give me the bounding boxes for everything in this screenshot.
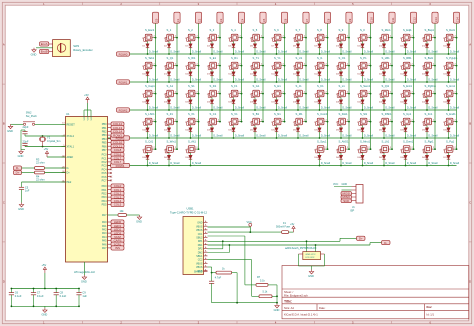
MCU pin PB7 bbox=[108, 149, 112, 151]
svg-text:S_End1: S_End1 bbox=[446, 112, 456, 116]
wire switch SW48 to column bbox=[454, 93, 456, 95]
wire column COL13 bbox=[434, 23, 436, 149]
wire J1 VCC bbox=[334, 186, 352, 188]
wire switch SW53 to column bbox=[239, 121, 241, 123]
junction at C10 bbox=[211, 272, 213, 274]
wire C1 to XTAL2 bbox=[24, 134, 26, 136]
svg-text:Title:: Title: bbox=[284, 300, 292, 304]
junction column 12 row 1 bbox=[413, 65, 415, 67]
svg-text:PA6: PA6 bbox=[102, 243, 107, 246]
svg-text:D_Small: D_Small bbox=[385, 162, 395, 165]
svg-text:D_Small: D_Small bbox=[213, 78, 223, 81]
junction diode D39 row 2 bbox=[319, 109, 321, 111]
svg-text:S_Bsl1: S_Bsl1 bbox=[425, 56, 434, 60]
global label ROW0 bbox=[117, 52, 130, 56]
junction column 1 row 0 bbox=[176, 37, 178, 39]
junction diode D25 row 1 bbox=[340, 81, 342, 83]
MCU pin PC2 bbox=[108, 161, 112, 163]
global label COL0 bbox=[152, 12, 158, 23]
wire switch SW63 to column bbox=[454, 121, 456, 123]
global label ROW3 bbox=[111, 136, 130, 140]
capacitor C7 0.1uF bbox=[31, 293, 36, 295]
junction D- at U2 bbox=[315, 244, 317, 246]
svg-text:D_Small: D_Small bbox=[321, 162, 331, 165]
svg-text:SBU2: SBU2 bbox=[196, 236, 203, 239]
global label COL11 bbox=[111, 144, 124, 148]
wire switch SW23 to column bbox=[239, 65, 241, 67]
svg-text:PD4: PD4 bbox=[102, 200, 107, 203]
diode D25 (D_Small) bbox=[336, 66, 338, 70]
svg-text:D_Small: D_Small bbox=[170, 106, 180, 109]
svg-text:PB2: PB2 bbox=[102, 131, 107, 134]
resistor R6 1k bbox=[216, 271, 232, 274]
junction diode D9 row 0 bbox=[319, 53, 321, 55]
svg-text:S_Alt1: S_Alt1 bbox=[188, 139, 196, 143]
junction column 9 row 0 bbox=[348, 37, 350, 39]
wire switch SW8 to column bbox=[239, 37, 241, 39]
wire +5V to MCU VCC pins bbox=[87, 103, 89, 110]
svg-text:D_Small: D_Small bbox=[385, 50, 395, 53]
svg-text:D_Small: D_Small bbox=[213, 134, 223, 137]
svg-text:S_Eql1: S_Eql1 bbox=[403, 28, 412, 32]
wire fuse to +5V bbox=[289, 231, 294, 233]
svg-text:C13: C13 bbox=[434, 17, 438, 22]
junction column 11 row 3 bbox=[391, 121, 393, 123]
MCU pin PD3 bbox=[108, 196, 112, 198]
global label COL3 bbox=[111, 195, 124, 199]
MCU pin PA6 bbox=[108, 243, 112, 245]
resistor R3 22ohm bbox=[35, 167, 45, 170]
svg-text:C6: C6 bbox=[15, 291, 19, 295]
junction column 10 row 2 bbox=[370, 93, 372, 95]
svg-text:D_Small: D_Small bbox=[321, 134, 331, 137]
ground at crystal caps bbox=[19, 150, 23, 154]
wire switch SW31 to column bbox=[411, 65, 413, 67]
MCU pin PB6 bbox=[108, 145, 112, 147]
wire switch SW22 to column bbox=[218, 65, 220, 67]
diode D11 (D_Small) bbox=[358, 38, 360, 42]
junction diode D62 row 4 bbox=[168, 165, 170, 167]
diode D13 (D_Small) bbox=[401, 38, 403, 42]
svg-text:D_Small: D_Small bbox=[299, 78, 309, 81]
svg-text:S_Q1: S_Q1 bbox=[167, 56, 174, 60]
junction diode D53 row 3 bbox=[297, 137, 299, 139]
svg-text:B: B bbox=[3, 122, 5, 126]
svg-text:U1: U1 bbox=[66, 112, 70, 116]
svg-text:SW3: SW3 bbox=[73, 44, 79, 48]
svg-text:D_Small: D_Small bbox=[450, 78, 460, 81]
junction diode D46 row 3 bbox=[147, 137, 149, 139]
wire switch SW41 to column bbox=[304, 93, 306, 95]
svg-text:C: C bbox=[469, 200, 471, 204]
svg-text:PC6: PC6 bbox=[102, 176, 107, 179]
svg-text:PB7: PB7 bbox=[102, 149, 107, 152]
wire row ROW4 from MCU pin bbox=[108, 165, 457, 167]
junction column 13 row 4 bbox=[434, 148, 436, 150]
svg-text:AREF: AREF bbox=[67, 156, 74, 159]
wire D- to R3 bbox=[22, 167, 35, 169]
junction diode D57 row 3 bbox=[383, 137, 385, 139]
svg-text:PB3: PB3 bbox=[102, 134, 107, 137]
svg-text:EncA: EncA bbox=[41, 42, 48, 46]
junction column 5 row 1 bbox=[262, 65, 264, 67]
diode D46 (D_Small) bbox=[143, 122, 145, 126]
wire switch SW45 to column bbox=[390, 93, 392, 95]
svg-text:S_0: S_0 bbox=[360, 28, 365, 32]
junction diode D5 row 0 bbox=[233, 53, 235, 55]
svg-text:ROW2: ROW2 bbox=[119, 108, 128, 112]
svg-text:S_3: S_3 bbox=[210, 28, 215, 32]
diode D45 (D_Small) bbox=[444, 94, 446, 98]
svg-text:VCC: VCC bbox=[247, 221, 252, 224]
global label COL4 bbox=[238, 12, 244, 23]
junction column 3 row 0 bbox=[219, 37, 221, 39]
svg-text:GND: GND bbox=[274, 308, 280, 312]
global label COL3 bbox=[217, 12, 223, 23]
svg-text:D_Small: D_Small bbox=[256, 50, 266, 53]
svg-text:D_Small: D_Small bbox=[407, 50, 417, 53]
global label D- at ESD bbox=[382, 241, 391, 245]
wire column COL4 bbox=[241, 23, 243, 121]
USB1 pin VBUS bbox=[204, 266, 208, 268]
USB1 pin DP1 bbox=[204, 240, 208, 242]
global label NUM bbox=[111, 235, 124, 239]
diode D7 (D_Small) bbox=[272, 38, 274, 42]
junction column 2 row 2 bbox=[198, 93, 200, 95]
wire switch SW46 to column bbox=[411, 93, 413, 95]
junction crystal top bbox=[42, 135, 44, 137]
svg-text:C12: C12 bbox=[412, 17, 416, 22]
svg-text:DN2: DN2 bbox=[198, 251, 203, 254]
junction diode D38 row 2 bbox=[297, 109, 299, 111]
svg-text:S_Hm1: S_Hm1 bbox=[446, 84, 455, 88]
svg-text:S_5: S_5 bbox=[253, 28, 258, 32]
global label COL10 bbox=[367, 12, 373, 23]
wire D+ to U2 bbox=[306, 241, 308, 251]
svg-text:VCC: VCC bbox=[84, 115, 86, 120]
svg-text:Rev:: Rev: bbox=[427, 305, 433, 309]
svg-text:PD5: PD5 bbox=[102, 204, 107, 207]
svg-text:S_Z1: S_Z1 bbox=[167, 112, 174, 116]
diode D24 (D_Small) bbox=[315, 66, 317, 70]
svg-text:D: D bbox=[469, 279, 471, 283]
svg-text:SCK: SCK bbox=[343, 199, 349, 203]
junction diode D70 row 4 bbox=[448, 165, 450, 167]
wire ground to SW2 bbox=[11, 123, 24, 125]
svg-text:D+: D+ bbox=[16, 171, 20, 175]
svg-text:D_Small: D_Small bbox=[149, 134, 159, 137]
wire switch SW13 to column bbox=[347, 37, 349, 39]
USB1 pin CC2 bbox=[204, 259, 208, 261]
svg-text:D_Small: D_Small bbox=[213, 106, 223, 109]
svg-text:D-: D- bbox=[384, 241, 387, 245]
svg-text:D_Small: D_Small bbox=[299, 134, 309, 137]
svg-text:GND: GND bbox=[18, 207, 24, 211]
svg-text:+5V: +5V bbox=[42, 263, 47, 267]
USB1 pin VBUS bbox=[204, 262, 208, 264]
diode D63 (D_Small) bbox=[186, 149, 188, 153]
svg-text:D_Small: D_Small bbox=[299, 106, 309, 109]
power +5V at cap bank bbox=[43, 267, 46, 273]
global label D+ bbox=[14, 170, 22, 174]
wire switch SW26 to column bbox=[304, 65, 306, 67]
junction column 8 row 1 bbox=[327, 65, 329, 67]
wire switch SW39 to column bbox=[261, 93, 263, 95]
junction diode D35 row 2 bbox=[233, 109, 235, 111]
svg-text:D_Small: D_Small bbox=[278, 106, 288, 109]
wire U2 left down bbox=[298, 254, 300, 266]
svg-text:D_Small: D_Small bbox=[235, 106, 245, 109]
diode D68 (D_Small) bbox=[401, 149, 403, 153]
MCU pin PD5 bbox=[108, 204, 112, 206]
svg-text:S_M1: S_M1 bbox=[296, 112, 304, 116]
diode D61 (D_Small) bbox=[143, 149, 145, 153]
svg-text:D_Small: D_Small bbox=[235, 78, 245, 81]
diode D5 (D_Small) bbox=[229, 38, 231, 42]
wire switch SW57 to column bbox=[325, 121, 327, 123]
junction diode D26 row 1 bbox=[362, 81, 364, 83]
svg-text:D_Small: D_Small bbox=[278, 134, 288, 137]
diode D40 (D_Small) bbox=[336, 94, 338, 98]
svg-text:S_Lft1: S_Lft1 bbox=[382, 139, 390, 143]
wire switch SW24 to column bbox=[261, 65, 263, 67]
svg-text:PB4: PB4 bbox=[102, 138, 107, 141]
wire switch SW20 to column bbox=[175, 65, 177, 67]
wire ground rail vertical bbox=[20, 130, 22, 150]
svg-text:C3: C3 bbox=[219, 18, 223, 22]
junction column 0 row 2 bbox=[155, 93, 157, 95]
junction diode D64 row 4 bbox=[319, 165, 321, 167]
diode D37 (D_Small) bbox=[272, 94, 274, 98]
diode D39 (D_Small) bbox=[315, 94, 317, 98]
MCU pin PC4 unconnected bbox=[108, 168, 112, 170]
svg-text:D_Small: D_Small bbox=[321, 78, 331, 81]
junction column 6 row 2 bbox=[284, 93, 286, 95]
diode D33 (D_Small) bbox=[186, 94, 188, 98]
svg-text:S_Pg1: S_Pg1 bbox=[446, 139, 455, 143]
diode D18 (D_Small) bbox=[186, 66, 188, 70]
diode D16 (D_Small) bbox=[143, 66, 145, 70]
wire switch SW18 to column bbox=[454, 37, 456, 39]
svg-text:D_Small: D_Small bbox=[428, 50, 438, 53]
svg-text:Id: 1/1: Id: 1/1 bbox=[427, 312, 435, 316]
svg-text:VBUS: VBUS bbox=[196, 225, 203, 228]
svg-text:C14: C14 bbox=[455, 17, 459, 22]
junction diode D31 row 2 bbox=[147, 109, 149, 111]
junction diode D61 row 4 bbox=[147, 165, 149, 167]
svg-text:S_H1: S_H1 bbox=[274, 84, 281, 88]
power +5V at MCU bbox=[86, 97, 89, 103]
junction diode D44 row 2 bbox=[426, 109, 428, 111]
diode D50 (D_Small) bbox=[229, 122, 231, 126]
svg-text:0.1uF: 0.1uF bbox=[60, 294, 67, 298]
MCU pin PA2 bbox=[108, 228, 112, 230]
svg-text:PA3: PA3 bbox=[102, 232, 107, 235]
MCU pin AREF bbox=[62, 156, 66, 158]
junction column 11 row 4 bbox=[391, 148, 393, 150]
svg-text:S_B1: S_B1 bbox=[253, 112, 260, 116]
svg-text:Y1: Y1 bbox=[47, 136, 51, 140]
svg-text:D_Small: D_Small bbox=[342, 78, 352, 81]
global label CAPS bbox=[111, 238, 124, 242]
svg-text:PA4: PA4 bbox=[102, 236, 107, 239]
global label COL12 bbox=[410, 12, 416, 23]
diode D35 (D_Small) bbox=[229, 94, 231, 98]
MCU pin PD4 bbox=[108, 200, 112, 202]
junction diode D60 row 3 bbox=[448, 137, 450, 139]
junction diode D19 row 1 bbox=[211, 81, 213, 83]
junction diode D28 row 1 bbox=[405, 81, 407, 83]
svg-text:S_Qt1: S_Qt1 bbox=[382, 84, 390, 88]
svg-text:DN1: DN1 bbox=[198, 244, 203, 247]
wire D- to U2 bbox=[315, 245, 317, 252]
svg-text:D_Small: D_Small bbox=[450, 50, 460, 53]
svg-text:S_Cap1: S_Cap1 bbox=[145, 84, 155, 88]
wire R3 to MCU D- bbox=[45, 167, 66, 169]
diode D38 (D_Small) bbox=[293, 94, 295, 98]
wire to C7 bbox=[33, 289, 35, 293]
USB1 pin DN2 bbox=[204, 251, 208, 253]
wire switch SW25 to column bbox=[282, 65, 284, 67]
wire switch SW54 to column bbox=[261, 121, 263, 123]
resistor R8 5.1k bbox=[259, 295, 272, 298]
svg-text:C8: C8 bbox=[60, 291, 64, 295]
wire to C6 bbox=[10, 289, 12, 293]
svg-text:D_Small: D_Small bbox=[364, 162, 374, 165]
svg-text:PD0: PD0 bbox=[102, 185, 107, 188]
junction diode D40 row 2 bbox=[340, 109, 342, 111]
global label COL1 bbox=[111, 188, 124, 192]
svg-text:S_2: S_2 bbox=[188, 28, 193, 32]
svg-text:S_C1: S_C1 bbox=[210, 112, 217, 116]
diode D48 (D_Small) bbox=[186, 122, 188, 126]
svg-text:GND: GND bbox=[18, 154, 24, 158]
junction column 8 row 3 bbox=[327, 121, 329, 123]
global label SCK bbox=[341, 199, 352, 203]
junction column 2 row 4 bbox=[198, 148, 200, 150]
svg-text:PA0: PA0 bbox=[102, 221, 107, 224]
svg-text:+5V: +5V bbox=[84, 93, 89, 97]
junction column 5 row 2 bbox=[262, 93, 264, 95]
global label ROW1 bbox=[117, 80, 130, 84]
ground at MCU bbox=[82, 275, 86, 279]
svg-text:D_Small: D_Small bbox=[192, 50, 202, 53]
junction column 14 row 3 bbox=[456, 121, 458, 123]
diode D36 (D_Small) bbox=[250, 94, 252, 98]
junction diode D24 row 1 bbox=[319, 81, 321, 83]
svg-text:DP1: DP1 bbox=[198, 240, 203, 243]
svg-text:D_Small: D_Small bbox=[256, 134, 266, 137]
svg-text:C1: C1 bbox=[176, 18, 180, 22]
resistor R4 22ohm bbox=[35, 171, 45, 174]
junction diode D14 row 0 bbox=[426, 53, 428, 55]
wire switch SW43 to column bbox=[347, 93, 349, 95]
ground at R5 bbox=[137, 215, 141, 219]
junction diode D54 row 3 bbox=[319, 137, 321, 139]
junction diode D13 row 0 bbox=[405, 53, 407, 55]
power +5V at AREF bbox=[45, 151, 48, 157]
global label COL11 bbox=[389, 12, 395, 23]
wire MCU GND pin bbox=[83, 262, 85, 275]
wire column COL0 bbox=[155, 23, 157, 149]
svg-text:0.1uF: 0.1uF bbox=[37, 294, 44, 298]
svg-text:ISP: ISP bbox=[350, 208, 354, 212]
wire switch SW17 to column bbox=[433, 37, 435, 39]
svg-text:PA1: PA1 bbox=[102, 225, 107, 228]
global label COL14 bbox=[111, 129, 124, 133]
junction column 9 row 3 bbox=[348, 121, 350, 123]
junction diode D67 row 4 bbox=[383, 165, 385, 167]
svg-text:D_Small: D_Small bbox=[407, 106, 417, 109]
svg-text:ROW1: ROW1 bbox=[119, 80, 128, 84]
svg-text:S_RB1: S_RB1 bbox=[403, 56, 412, 60]
junction diode D10 row 0 bbox=[340, 53, 342, 55]
diode D57 (D_Small) bbox=[379, 122, 381, 126]
junction diode D21 row 1 bbox=[254, 81, 256, 83]
wire switch SW61 to column bbox=[411, 121, 413, 123]
junction column 0 row 3 bbox=[155, 121, 157, 123]
svg-text:5.1k: 5.1k bbox=[263, 290, 268, 293]
svg-text:D_Small: D_Small bbox=[364, 106, 374, 109]
diode D65 (D_Small) bbox=[336, 149, 338, 153]
wire USB pin to R6 bbox=[208, 266, 212, 268]
svg-text:C: C bbox=[3, 200, 5, 204]
svg-text:ROW0: ROW0 bbox=[119, 52, 128, 56]
diode D28 (D_Small) bbox=[401, 66, 403, 70]
junction diode D30 row 1 bbox=[448, 81, 450, 83]
junction column 2 row 0 bbox=[198, 37, 200, 39]
junction column 12 row 2 bbox=[413, 93, 415, 95]
svg-text:S_Tab1: S_Tab1 bbox=[145, 56, 155, 60]
svg-text:D_Small: D_Small bbox=[149, 106, 159, 109]
svg-text:S_P1: S_P1 bbox=[360, 56, 367, 60]
MCU pin RESET bbox=[62, 123, 66, 125]
junction column 1 row 2 bbox=[176, 93, 178, 95]
capacitor C8 0.1uF bbox=[54, 293, 59, 295]
diode D53 (D_Small) bbox=[293, 122, 295, 126]
wire D+ to R4 bbox=[22, 172, 35, 174]
wire switch SW29 to column bbox=[368, 65, 370, 67]
wire MCU PE2 to C5 bbox=[22, 181, 66, 183]
svg-text:4.7uF: 4.7uF bbox=[215, 276, 222, 279]
diode D58 (D_Small) bbox=[401, 122, 403, 126]
MCU pin PD1 bbox=[108, 189, 112, 191]
svg-text:PD3: PD3 bbox=[102, 196, 107, 199]
global label LED3 bbox=[111, 231, 124, 235]
junction diode D48 row 3 bbox=[190, 137, 192, 139]
svg-text:+5V: +5V bbox=[44, 147, 49, 151]
svg-text:S_AltG1: S_AltG1 bbox=[339, 139, 350, 143]
junction column 14 row 2 bbox=[456, 93, 458, 95]
ground at cap bank bbox=[43, 308, 47, 312]
MCU pin PA5 bbox=[108, 240, 112, 242]
junction diode D2 row 0 bbox=[168, 53, 170, 55]
junction column 10 row 1 bbox=[370, 65, 372, 67]
wire switch SW67 to column bbox=[325, 148, 327, 150]
MCU pin PB2 bbox=[108, 130, 112, 132]
MCU pin XTAL2 bbox=[62, 135, 66, 137]
MCU pin PC6 unconnected bbox=[108, 176, 112, 178]
wire switch SW36 to column bbox=[196, 93, 198, 95]
wire switch SW42 to column bbox=[325, 93, 327, 95]
svg-text:KiCad E.D.A. kicad (5.1.4)-1: KiCad E.D.A. kicad (5.1.4)-1 bbox=[284, 312, 318, 316]
wire switch SW65 to column bbox=[175, 148, 177, 150]
junction column 13 row 0 bbox=[434, 37, 436, 39]
diode D69 (D_Small) bbox=[422, 149, 424, 153]
junction diode D12 row 0 bbox=[383, 53, 385, 55]
wire R6 down to ground rail bbox=[236, 273, 238, 303]
wire SW2 to RESET bbox=[35, 123, 66, 125]
